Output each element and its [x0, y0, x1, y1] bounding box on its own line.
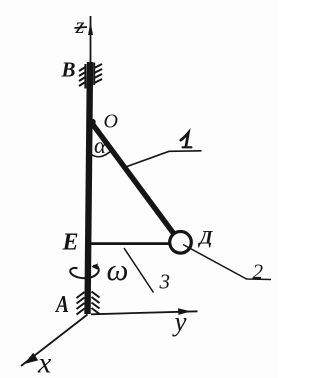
svg-text:α: α	[94, 133, 107, 158]
omega rotation arrow	[70, 266, 99, 278]
svg-text:B: B	[61, 58, 76, 82]
svg-text:O: O	[104, 111, 118, 133]
y axis arrowhead	[178, 308, 191, 315]
bearing A right hatching	[92, 292, 100, 315]
bearing A left hatching	[77, 292, 85, 315]
svg-text:x: x	[37, 347, 52, 378]
svg-text:A: A	[54, 292, 69, 318]
rod AB (vertical shaft)	[88, 62, 91, 314]
z axis line	[90, 16, 92, 64]
svg-text:E: E	[62, 230, 79, 256]
bearing B left hatching	[79, 64, 85, 89]
bar 1 (inclined rod O to ball)	[91, 122, 174, 234]
svg-text:2: 2	[253, 260, 264, 284]
svg-text:ω: ω	[107, 252, 129, 287]
node O (pivot dot)	[89, 119, 95, 125]
z axis arrowhead	[88, 22, 93, 36]
bar 3 (horizontal rod E to ball)	[91, 242, 170, 245]
bearing B right hatching	[94, 63, 102, 86]
leader line for label 1	[127, 151, 202, 167]
label 1	[181, 133, 189, 147]
svg-text:y: y	[172, 307, 187, 337]
x axis	[21, 315, 88, 367]
y axis	[91, 311, 198, 314]
x axis arrowhead	[24, 353, 38, 364]
angle alpha arc	[88, 150, 113, 157]
ball 2 at D	[170, 232, 192, 254]
svg-text:z: z	[75, 13, 85, 38]
leader line for label 2	[183, 245, 271, 280]
svg-text:3: 3	[159, 270, 171, 294]
svg-text:Д: Д	[198, 228, 214, 249]
leader line for label 3	[124, 248, 154, 293]
